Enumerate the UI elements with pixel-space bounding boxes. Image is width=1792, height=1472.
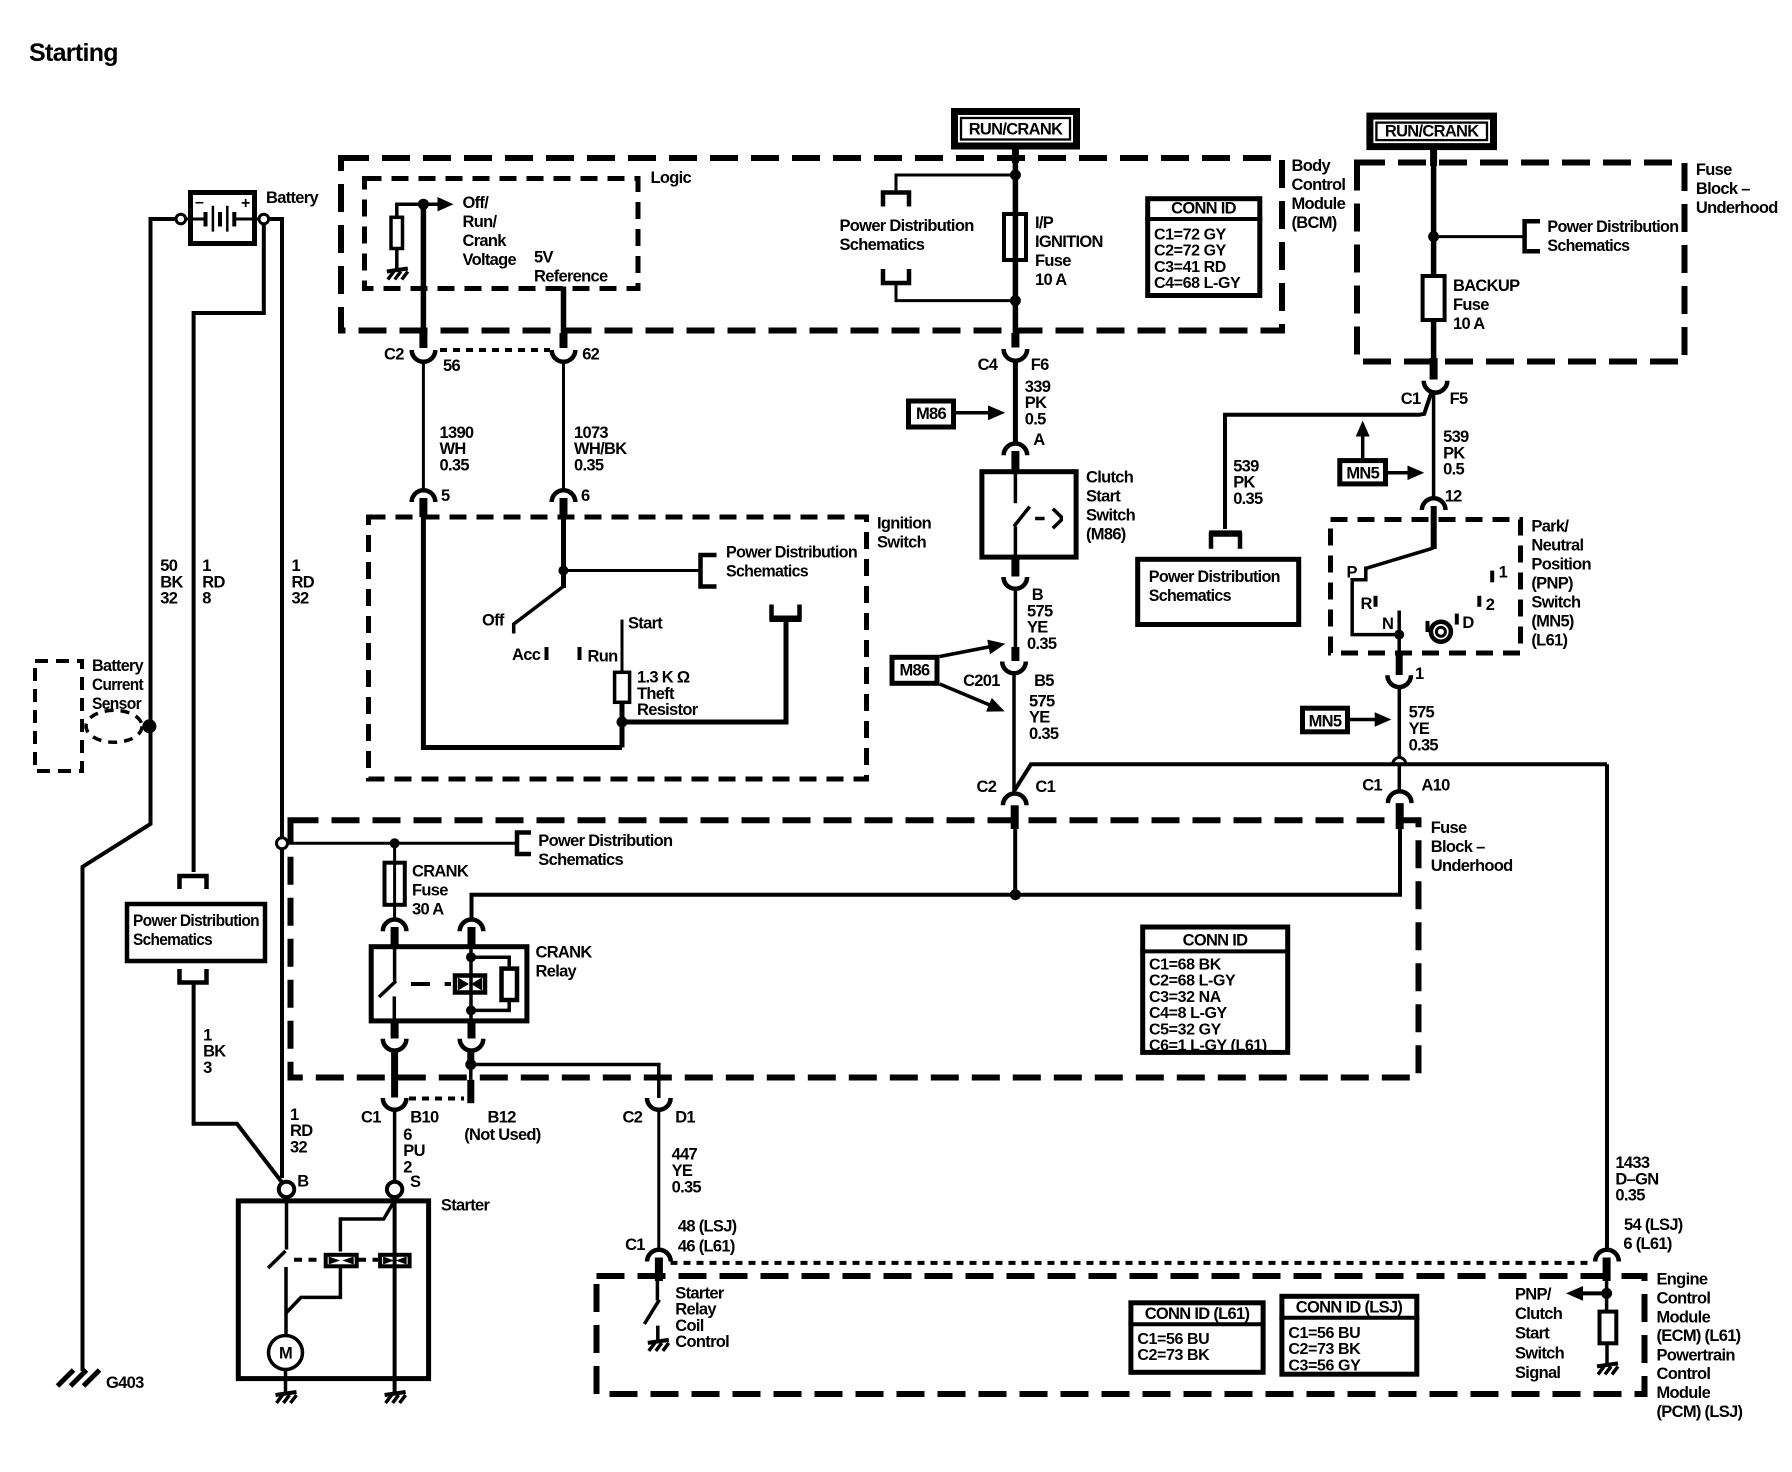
svg-text:2: 2 [1486, 596, 1495, 614]
svg-text:RUN/CRANK: RUN/CRANK [1385, 123, 1479, 141]
battery current sensor box [35, 661, 82, 771]
connector pin 62 [552, 350, 576, 362]
svg-text:Power Distribution: Power Distribution [1149, 568, 1281, 586]
svg-text:B10: B10 [410, 1108, 439, 1126]
staple lower (BCM PDS) [883, 269, 909, 283]
ground in logic box [387, 269, 408, 280]
relay switch output through fuse block edge [391, 1050, 398, 1098]
svg-text:Schematics: Schematics [726, 563, 809, 581]
svg-text:1: 1 [292, 557, 301, 575]
junction dot top [1010, 170, 1021, 181]
svg-text:Schematics: Schematics [133, 931, 212, 949]
connector C1 pin B10 [383, 1098, 407, 1110]
I/P IGNITION fuse [1004, 214, 1026, 260]
svg-text:Battery: Battery [266, 189, 319, 207]
svg-text:Fuse: Fuse [1696, 161, 1732, 179]
svg-text:575: 575 [1027, 602, 1053, 620]
staple upper (BCM PDS) [883, 193, 909, 207]
svg-text:C4=8 L-GY: C4=8 L-GY [1149, 1005, 1227, 1022]
solenoid pull-in winding path [340, 1202, 394, 1252]
svg-text:B: B [1032, 586, 1044, 604]
clutch switch internals [1014, 471, 1018, 503]
svg-text:6: 6 [403, 1126, 412, 1144]
svg-text:C2=72 GY: C2=72 GY [1154, 243, 1227, 260]
svg-text:(ECM) (L61): (ECM) (L61) [1657, 1327, 1741, 1345]
junction dot bottom [1010, 295, 1021, 306]
junction dot theft resistor [617, 717, 628, 728]
off-page staple below PDS box left [180, 969, 207, 983]
svg-text:Relay: Relay [536, 963, 578, 981]
svg-text:0.35: 0.35 [672, 1178, 702, 1196]
svg-text:BK: BK [160, 573, 183, 591]
connector pin 5 [412, 490, 436, 502]
ground starter relay coil control [648, 1340, 669, 1351]
connector pin 6 [552, 490, 576, 502]
M86 flag box [909, 401, 954, 427]
svg-text:PK: PK [1443, 444, 1465, 462]
battery [186, 193, 260, 244]
svg-text:I/P: I/P [1035, 214, 1054, 232]
svg-text:Control: Control [675, 1333, 729, 1351]
svg-text:RD: RD [292, 573, 315, 591]
wire 575 YE 0.35 lower [1012, 673, 1016, 795]
starter main contact [285, 1197, 289, 1249]
svg-text:B5: B5 [1034, 672, 1054, 690]
svg-text:Neutral: Neutral [1531, 537, 1583, 555]
svg-text:46 (L61): 46 (L61) [678, 1237, 735, 1255]
splice circle on 1 RD 32 wire [277, 838, 288, 849]
power distribution schematics box mid [1138, 559, 1299, 624]
svg-text:(MN5): (MN5) [1531, 613, 1574, 631]
connector C1 ECM left [647, 1250, 671, 1262]
svg-text:Module: Module [1657, 1384, 1711, 1402]
svg-text:C6=1 L-GY (L61): C6=1 L-GY (L61) [1149, 1038, 1267, 1055]
ignition switch dashed box [369, 517, 867, 779]
svg-text:Power Distribution: Power Distribution [1547, 218, 1679, 236]
connector C1 pin A10 [1388, 791, 1412, 803]
svg-text:Module: Module [1292, 195, 1346, 213]
ground under M [276, 1392, 297, 1403]
svg-text:+: + [241, 195, 250, 212]
svg-text:R: R [1361, 595, 1373, 613]
wire 447 YE 0.35 [657, 1109, 660, 1251]
relay coil feed wire [472, 895, 1016, 921]
junction dot on relay feed [1010, 889, 1021, 900]
svg-text:YE: YE [1027, 619, 1048, 637]
svg-text:Body: Body [1292, 157, 1332, 175]
svg-text:F6: F6 [1031, 356, 1049, 374]
connector B clutch switch [1011, 557, 1019, 577]
svg-text:Relay: Relay [675, 1301, 717, 1319]
svg-text:–: – [195, 194, 204, 211]
theft resistor [615, 672, 630, 702]
svg-text:N: N [1382, 615, 1393, 633]
svg-text:8: 8 [202, 590, 211, 608]
svg-text:0.35: 0.35 [1409, 736, 1439, 754]
svg-text:Underhood: Underhood [1696, 199, 1778, 217]
connector C2 pin 56 [412, 350, 436, 362]
connector C2 pin D1 [647, 1098, 671, 1110]
svg-text:CONN ID: CONN ID [1183, 932, 1249, 950]
svg-text:Clutch: Clutch [1086, 469, 1134, 487]
connector 12 into PNP [1422, 498, 1446, 510]
M86 arrow [956, 411, 990, 415]
svg-text:YE: YE [672, 1162, 693, 1180]
wire resistor to node [397, 204, 424, 217]
junction dot on 50 BK wire [142, 719, 156, 733]
svg-text:1: 1 [203, 1026, 212, 1044]
relay switch contact [393, 946, 397, 981]
svg-text:C1=72 GY: C1=72 GY [1154, 226, 1227, 243]
svg-text:B12: B12 [488, 1108, 517, 1126]
svg-text:Engine: Engine [1657, 1271, 1708, 1289]
svg-text:1: 1 [1499, 564, 1508, 582]
svg-text:Power Distribution: Power Distribution [538, 832, 673, 850]
wire 50 BK 32 from battery negative [83, 219, 177, 1371]
svg-text:Run: Run [588, 648, 619, 666]
wire 1 RD 8 from battery positive to power distribution [194, 224, 264, 872]
svg-text:PK: PK [1025, 394, 1047, 412]
wire 1390 WH 0.35 [422, 360, 425, 490]
svg-text:Coil: Coil [675, 1317, 703, 1335]
svg-text:S: S [410, 1173, 421, 1191]
power distribution schematics box left [127, 904, 265, 961]
svg-text:Control: Control [1657, 1290, 1711, 1308]
off-page bracket fuse block left [517, 833, 531, 855]
start contact wire [621, 620, 624, 673]
branch to PDS bracket right [1434, 235, 1525, 238]
svg-text:C5=32 GY: C5=32 GY [1149, 1021, 1222, 1038]
svg-text:MN5: MN5 [1346, 465, 1379, 483]
svg-text:C2: C2 [384, 345, 404, 363]
svg-text:Schematics: Schematics [1547, 237, 1630, 255]
svg-text:1: 1 [1415, 665, 1424, 683]
wire 1 RD 32 battery positive to starter B [269, 219, 283, 1178]
svg-text:Logic: Logic [651, 169, 692, 187]
svg-text:Start: Start [1086, 488, 1121, 506]
svg-text:Signal: Signal [1515, 1364, 1560, 1382]
stub through fuse block edge [1011, 805, 1019, 829]
svg-text:Module: Module [1657, 1308, 1711, 1326]
svg-text:CONN ID: CONN ID [1171, 200, 1237, 218]
svg-text:Switch: Switch [1531, 594, 1581, 612]
svg-text:0.5: 0.5 [1025, 411, 1046, 429]
svg-text:48 (LSJ): 48 (LSJ) [678, 1217, 737, 1235]
logic dashed box [365, 179, 639, 289]
svg-text:1390: 1390 [440, 424, 474, 442]
svg-text:32: 32 [290, 1138, 307, 1156]
svg-text:Fuse: Fuse [1035, 252, 1071, 270]
svg-text:Power Distribution: Power Distribution [840, 217, 975, 235]
relay coil output to D1 [467, 1050, 474, 1065]
svg-text:WH: WH [440, 440, 466, 458]
svg-text:Block –: Block – [1431, 838, 1485, 856]
ground under S [385, 1392, 406, 1403]
RUN/CRANK fuse label box 2 [1370, 116, 1494, 147]
connector A clutch start switch [1004, 444, 1028, 456]
svg-text:0.35: 0.35 [1027, 635, 1057, 653]
svg-text:F5: F5 [1450, 390, 1468, 408]
off-page bracket fuse block right [1525, 221, 1540, 251]
dotted line C1 connector [409, 1097, 464, 1101]
wire 575 YE 0.35 upper [1014, 588, 1018, 647]
svg-text:BK: BK [203, 1043, 226, 1061]
PNP switch dashed box [1331, 520, 1521, 654]
BACKUP fuse [1423, 276, 1445, 320]
relay outputs [391, 1022, 399, 1039]
svg-text:Start: Start [1515, 1325, 1550, 1343]
hop over signal wire [1393, 758, 1406, 764]
svg-text:A10: A10 [1421, 777, 1450, 795]
svg-text:0.35: 0.35 [1029, 725, 1059, 743]
svg-text:Starting: Starting [29, 39, 118, 67]
solenoid linkage dashes [294, 1258, 323, 1262]
svg-text:Starter: Starter [441, 1197, 491, 1215]
wire 1073 WH/BK 0.35 [562, 360, 565, 490]
svg-text:CONN ID (LSJ): CONN ID (LSJ) [1296, 1299, 1403, 1317]
wire resistor to ground [395, 249, 399, 270]
solenoid coil X box 1 [326, 1255, 357, 1267]
M86 arrows to C201 [940, 647, 991, 657]
svg-text:Current: Current [92, 676, 144, 694]
svg-text:62: 62 [582, 345, 599, 363]
starter B terminal [279, 1182, 294, 1197]
connector C2 / C1 into fuse block [1003, 794, 1027, 806]
battery terminal + [259, 214, 269, 224]
svg-text:0.5: 0.5 [1443, 461, 1464, 479]
svg-text:Theft: Theft [637, 685, 675, 703]
clutch start switch box [982, 472, 1076, 557]
svg-text:Switch: Switch [1515, 1344, 1565, 1362]
svg-text:M: M [279, 1345, 292, 1363]
svg-text:1: 1 [202, 557, 211, 575]
svg-text:C1: C1 [1035, 778, 1055, 796]
svg-text:Start: Start [628, 615, 663, 633]
relay coil loop [471, 957, 509, 1010]
wire RUN/CRANK 2 down [1430, 148, 1437, 166]
branch to 539 PK 0.35 [1225, 394, 1431, 530]
svg-text:PNP/: PNP/ [1515, 1285, 1552, 1303]
fuse block underhood top right dashed box [1357, 163, 1685, 362]
wire backup fuse to C1 F5 [1431, 318, 1437, 358]
B12 not used stub [469, 1065, 473, 1080]
svg-text:0.35: 0.35 [574, 456, 604, 474]
PNP clutch start switch signal arrow [1605, 1281, 1609, 1312]
arrow Off/Run/Crank Voltage [423, 202, 440, 206]
svg-text:Run/: Run/ [463, 213, 498, 231]
off-page bracket ignition [701, 555, 717, 587]
svg-text:Sensor: Sensor [92, 695, 142, 713]
CONN ID table fuse block [1140, 927, 1290, 1055]
svg-text:Switch: Switch [877, 534, 927, 552]
connector C201 pin B5 [1011, 647, 1019, 661]
D ring indicator [1431, 622, 1451, 642]
svg-text:32: 32 [292, 590, 309, 608]
relay linkage dashes [411, 982, 430, 986]
wire 575 YE 0.35 from PNP [1398, 687, 1402, 759]
svg-text:50: 50 [160, 557, 177, 575]
svg-text:(Not Used): (Not Used) [464, 1126, 541, 1144]
svg-text:Ignition: Ignition [877, 515, 932, 533]
branch diagonal to signal wire [1015, 764, 1607, 790]
svg-text:Reference: Reference [534, 268, 608, 286]
PNP blade to P [1367, 548, 1434, 568]
svg-text:Battery: Battery [92, 657, 144, 675]
connector C1 ECM right [1595, 1250, 1619, 1262]
svg-text:A: A [1033, 431, 1045, 449]
connector C1 pin F5 [1424, 381, 1448, 393]
svg-text:Block –: Block – [1696, 180, 1750, 198]
staple above (ignition run feed) [772, 605, 800, 618]
svg-text:D: D [1462, 614, 1474, 632]
wire from staple to fuse node [896, 285, 1015, 301]
CONN ID table BCM [1145, 199, 1262, 296]
svg-text:C1: C1 [1401, 390, 1421, 408]
svg-text:C4: C4 [978, 356, 999, 374]
svg-text:54 (LSJ): 54 (LSJ) [1624, 1216, 1683, 1234]
svg-text:Underhood: Underhood [1431, 857, 1513, 875]
off-page staple above PDS box left [180, 876, 207, 889]
svg-text:339: 339 [1025, 378, 1051, 396]
svg-text:5V: 5V [534, 249, 553, 267]
wire 1 BK 3 from PDS box to starter B [194, 984, 283, 1183]
wire 339 PK 0.5 [1013, 360, 1018, 446]
ground G403 [58, 1370, 100, 1386]
relay coil X box [455, 976, 485, 993]
wire crank fuse feed [288, 842, 518, 845]
svg-text:0.35: 0.35 [1615, 1187, 1645, 1205]
svg-text:Powertrain: Powertrain [1657, 1347, 1736, 1365]
junction dot crank fuse [390, 838, 400, 848]
wire N down to connector 1 [1397, 635, 1401, 651]
svg-text:M86: M86 [900, 661, 931, 679]
svg-text:C201: C201 [963, 672, 1000, 690]
connector 1 below PNP [1387, 675, 1411, 687]
branch to PDS bracket [563, 569, 700, 572]
starter motor M [269, 1336, 303, 1370]
starter box [238, 1201, 428, 1379]
svg-text:Power Distribution: Power Distribution [726, 544, 858, 562]
svg-text:Fuse: Fuse [412, 882, 448, 900]
CONN ID LSJ table [1279, 1296, 1419, 1374]
CRANK fuse [393, 843, 396, 920]
svg-text:C3=56 GY: C3=56 GY [1288, 1357, 1361, 1374]
svg-text:G403: G403 [106, 1374, 144, 1392]
ECM pull resistor [1600, 1312, 1617, 1344]
starter S terminal [387, 1182, 402, 1197]
svg-text:Voltage: Voltage [463, 251, 517, 269]
svg-text:(PNP): (PNP) [1531, 575, 1573, 593]
svg-text:PU: PU [403, 1142, 425, 1160]
wire contact 6 down [561, 502, 566, 588]
svg-text:30 A: 30 A [412, 901, 444, 919]
starter S wire through solenoid [393, 1197, 397, 1394]
svg-text:6: 6 [581, 487, 590, 505]
svg-text:CRANK: CRANK [536, 944, 593, 962]
svg-text:C2: C2 [977, 778, 997, 796]
svg-text:IGNITION: IGNITION [1035, 233, 1103, 251]
connector C4 pin F6 [1004, 349, 1028, 361]
ground in ECM [1597, 1363, 1618, 1374]
MN5 flag box with up arrow [1340, 461, 1386, 484]
battery terminal - [176, 214, 186, 224]
svg-text:WH/BK: WH/BK [574, 440, 627, 458]
CRANK relay box [371, 947, 527, 1021]
CONN ID L61 table [1128, 1303, 1265, 1373]
wire 6 PU 2 to starter S [393, 1109, 397, 1182]
svg-text:D–GN: D–GN [1615, 1170, 1658, 1188]
wire to C1 A10 [1398, 766, 1402, 793]
wire off/run/crank voltage down [421, 204, 427, 333]
wire resistor to junction [620, 702, 625, 747]
svg-text:(L61): (L61) [1531, 632, 1567, 650]
svg-text:Schematics: Schematics [538, 851, 623, 869]
svg-text:Switch: Switch [1086, 507, 1136, 525]
svg-text:1.3 K Ω: 1.3 K Ω [637, 669, 690, 687]
node A junction dot [418, 199, 429, 210]
BCM dashed box [341, 158, 1282, 331]
svg-text:56: 56 [443, 357, 460, 375]
svg-text:447: 447 [672, 1146, 698, 1164]
branch to power distribution (BCM) [896, 175, 1015, 191]
svg-text:0.35: 0.35 [440, 456, 470, 474]
svg-text:Control: Control [1657, 1365, 1711, 1383]
svg-text:C1=56 BU: C1=56 BU [1288, 1325, 1360, 1342]
wire RUN/CRANK down into BCM [1012, 148, 1019, 163]
svg-text:(M86): (M86) [1086, 526, 1126, 544]
svg-text:Fuse: Fuse [1431, 819, 1467, 837]
svg-text:539: 539 [1443, 428, 1469, 446]
svg-text:Position: Position [1531, 556, 1591, 574]
svg-text:C1: C1 [625, 1236, 645, 1254]
svg-text:Off/: Off/ [463, 194, 490, 212]
svg-text:Park/: Park/ [1531, 518, 1569, 536]
svg-text:Starter: Starter [675, 1284, 725, 1302]
hold-in winding return [286, 1268, 340, 1313]
svg-text:Off: Off [482, 612, 505, 630]
svg-text:575: 575 [1409, 704, 1435, 722]
svg-text:1073: 1073 [574, 424, 608, 442]
MN5 flag box lower [1303, 708, 1348, 732]
svg-text:RD: RD [290, 1122, 313, 1140]
svg-text:YE: YE [1029, 709, 1050, 727]
svg-text:D1: D1 [675, 1108, 695, 1126]
wire fuse to C4 [1013, 302, 1019, 333]
svg-text:(BCM): (BCM) [1292, 214, 1337, 232]
svg-text:RUN/CRANK: RUN/CRANK [969, 121, 1063, 139]
relay switch input connector [383, 919, 407, 931]
relay coil vertical wire [469, 946, 473, 1022]
svg-text:C2: C2 [623, 1108, 643, 1126]
wire A10 down to relay coil line [1015, 829, 1400, 895]
svg-text:5: 5 [441, 487, 450, 505]
junction dot backup feed [1428, 231, 1439, 242]
wire contact 5 down and across [423, 502, 622, 748]
wire 5V reference down [561, 287, 567, 334]
svg-text:Schematics: Schematics [840, 236, 925, 254]
svg-text:12: 12 [1445, 487, 1462, 505]
svg-text:Power Distribution: Power Distribution [133, 912, 260, 930]
svg-text:C2=68 L-GY: C2=68 L-GY [1149, 973, 1236, 990]
ECM PCM dashed box [597, 1276, 1645, 1394]
junction dot ignition feed [558, 566, 568, 576]
svg-text:(PCM) (LSJ): (PCM) (LSJ) [1657, 1403, 1743, 1421]
svg-text:Schematics: Schematics [1149, 587, 1232, 605]
svg-text:C2=73 BK: C2=73 BK [1288, 1341, 1361, 1358]
svg-text:P: P [1347, 564, 1358, 582]
ignition switch blade to Off [514, 586, 564, 633]
svg-text:C4=68 L-GY: C4=68 L-GY [1154, 275, 1241, 292]
